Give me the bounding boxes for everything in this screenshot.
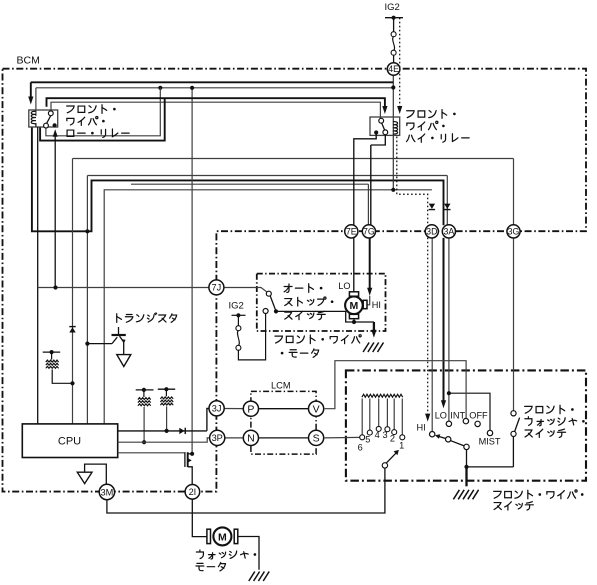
svg-text:IG2: IG2 [385,2,400,13]
svg-text:1: 1 [399,440,404,450]
svg-text:3: 3 [383,430,388,440]
svg-text:LO: LO [435,411,447,421]
svg-text:5: 5 [365,435,370,445]
svg-text:4E: 4E [388,64,399,74]
svg-text:2I: 2I [189,487,197,497]
svg-text:7E: 7E [346,227,357,237]
svg-text:3G: 3G [508,227,520,237]
svg-text:7J: 7J [212,283,222,293]
svg-text:4: 4 [375,430,380,440]
svg-text:3A: 3A [444,227,455,237]
svg-text:INT: INT [450,411,465,421]
svg-text:S: S [313,433,320,445]
svg-text:P: P [247,403,254,415]
svg-text:V: V [313,403,320,415]
svg-text:HI: HI [372,300,381,310]
svg-text:N: N [247,433,255,445]
svg-text:3D: 3D [426,227,437,237]
svg-text:CPU: CPU [58,435,81,447]
svg-text:6: 6 [358,443,363,453]
svg-text:3J: 3J [212,404,222,414]
svg-text:3M: 3M [101,487,114,497]
svg-text:M: M [218,531,227,543]
svg-text:3P: 3P [212,433,223,443]
svg-text:IG2: IG2 [229,300,244,311]
svg-text:2: 2 [390,434,395,444]
svg-text:OFF: OFF [469,411,488,421]
svg-text:MIST: MIST [479,437,501,447]
svg-text:M: M [350,300,359,312]
svg-text:HI: HI [417,423,426,433]
svg-text:7G: 7G [363,227,375,237]
svg-text:BCM: BCM [17,55,40,67]
svg-text:LO: LO [338,281,350,291]
svg-text:LCM: LCM [271,381,291,391]
